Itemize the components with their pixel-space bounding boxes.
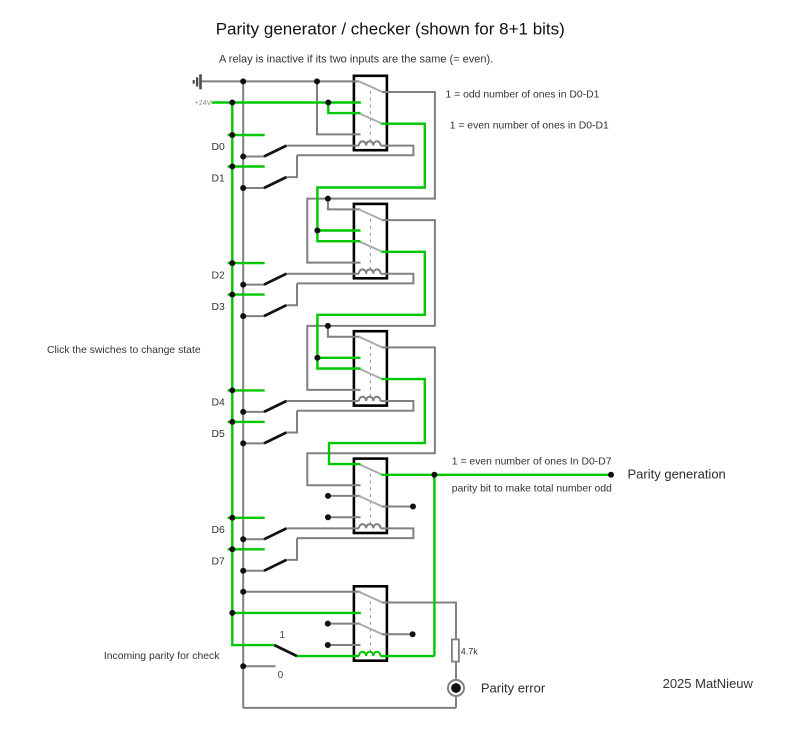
coil K2 (359, 269, 381, 273)
node K3 odd branch (325, 323, 331, 329)
svg-text:Parity error: Parity error (481, 681, 546, 696)
node K5 contact1-NC row (240, 589, 246, 595)
wire K3 coil return loop (297, 401, 413, 411)
relay K4 box (354, 459, 387, 533)
wire K4 even output down to K5 coil (433, 475, 435, 656)
switch D3 pole stub (243, 315, 264, 317)
relay K1 armature dashed line (369, 91, 371, 146)
relay K4 armature dashed line (369, 474, 371, 529)
node K5 contact2-NO terminal (325, 642, 331, 648)
svg-text:2025 MatNieuw: 2025 MatNieuw (663, 676, 754, 691)
switch D2 +24V throw stub (228, 262, 265, 264)
wire K2 odd output to K3 (307, 220, 435, 390)
node K2 odd branch (325, 196, 331, 202)
switch D0 +24V throw stub (228, 134, 265, 136)
switch D7 +24V throw stub (228, 548, 265, 550)
wire K5 contact1-NC from 0V bus (243, 591, 360, 593)
node D3 +24V stub (229, 292, 235, 298)
wire resistor to lamp (455, 662, 457, 680)
switch D6 arm (264, 528, 286, 539)
node D0 +24V stub (229, 132, 235, 138)
node D6 pole (240, 536, 246, 542)
node D7 pole (240, 568, 246, 574)
wire branch to K2 contact1-NC (328, 199, 361, 210)
svg-text:Click the swiches to change st: Click the swiches to change state (47, 345, 201, 356)
relay K3 armature dashed line (369, 346, 371, 401)
node K4 contact2-NC terminal (325, 493, 331, 499)
+24V supply rail wire (212, 101, 361, 103)
svg-text:1: 1 (280, 630, 286, 641)
K1 contact1 movable arm (359, 81, 383, 92)
node parity-0 stub (240, 663, 246, 669)
node D2 pole (240, 282, 246, 288)
wire parity switch output to K5 coil (297, 655, 359, 657)
wire D5 output riser to K3 coil return (286, 411, 297, 433)
node +24V/green-bus junction (229, 100, 235, 106)
K4 contact2 movable arm (359, 496, 383, 507)
K2 contact1 movable arm (359, 209, 383, 220)
svg-text:parity bit to make total numbe: parity bit to make total number odd (452, 484, 612, 495)
wire branch to K2 contact1-NO (317, 229, 360, 231)
svg-text:D1: D1 (212, 174, 226, 185)
node D7 +24V stub (229, 546, 235, 552)
node +24V/K1-c2 feed junction (325, 100, 331, 106)
wire branch to K3 contact1-NC (328, 326, 361, 337)
relay K5 armature dashed line (369, 602, 371, 657)
switch D4 arm (264, 401, 286, 412)
svg-text:D4: D4 (212, 398, 226, 409)
node ground/K1-NC feed junction (314, 78, 320, 84)
wire K5 contact2 output (382, 633, 413, 635)
wire K5 coil to K4 even output (381, 655, 435, 657)
K2 contact2 movable arm (359, 241, 383, 252)
node K4 contact2-NO terminal (325, 514, 331, 520)
wire K1 contact2-NC feed from ground rail (317, 81, 361, 134)
switch D7 arm (264, 560, 286, 571)
resistor R1 4.7k (452, 639, 459, 661)
gray 0V bus vertical wire (242, 81, 244, 708)
svg-text:D0: D0 (212, 142, 226, 153)
wire D2 output to K2 coil (286, 273, 359, 275)
node parity bit terminal (410, 504, 416, 510)
switch D6 +24V throw stub (228, 517, 265, 519)
switch D2 pole stub (243, 284, 264, 286)
node D2 +24V stub (229, 260, 235, 266)
coil K5 (energized side wiring) (359, 652, 381, 656)
svg-text:D3: D3 (212, 302, 226, 313)
svg-text:0: 0 (278, 670, 284, 681)
svg-text:D5: D5 (212, 429, 226, 440)
node K5 contact1-NO row (229, 610, 235, 616)
wire K4 coil return loop (297, 528, 413, 538)
switch D2 arm (264, 274, 286, 285)
node D5 +24V stub (229, 419, 235, 425)
wire K5 contact1-NO feed from +24V (232, 612, 360, 614)
svg-text:D6: D6 (212, 525, 226, 536)
wire K3 even output to K4 contact1-NC (329, 379, 425, 464)
switch D6 pole stub (243, 538, 264, 540)
switch D1 pole stub (243, 187, 264, 189)
svg-text:Incoming parity for check: Incoming parity for check (104, 651, 220, 662)
node ground/0V-bus junction (240, 78, 246, 84)
switch incoming-parity arm (set to 1) (274, 645, 297, 656)
K3 contact2 movable arm (359, 369, 383, 380)
node D1 +24V stub (229, 164, 235, 170)
wire K3 odd output to K4 contact1-NO (307, 347, 435, 485)
switch D5 +24V throw stub (228, 421, 265, 423)
coil K4 (359, 524, 381, 528)
relay K2 box (354, 204, 387, 278)
wire K1 odd output to K2 (307, 92, 435, 263)
svg-text:D2: D2 (212, 270, 226, 281)
node parity generation junction (431, 472, 437, 478)
svg-text:+24V: +24V (195, 100, 212, 107)
wire D0 output to K1 coil (286, 145, 359, 147)
node D0 pole (240, 154, 246, 160)
switch D4 +24V throw stub (228, 389, 265, 391)
svg-text:Parity generation: Parity generation (628, 467, 726, 482)
wire branch to K3 contact1-NO (317, 357, 360, 359)
switch parity-0 throw stub (243, 665, 275, 667)
relay K2 armature dashed line (369, 219, 371, 274)
K5 contact1 movable arm (359, 592, 383, 603)
node D4 pole (240, 409, 246, 415)
node D5 pole (240, 440, 246, 446)
wire lamp to bottom return (455, 696, 457, 708)
node D4 +24V stub (229, 387, 235, 393)
coil K3 (359, 397, 381, 401)
svg-text:4.7k: 4.7k (461, 647, 479, 657)
svg-text:Parity generator / checker (sh: Parity generator / checker (shown for 8+… (216, 20, 565, 39)
node D3 pole (240, 313, 246, 319)
switch D5 pole stub (243, 442, 264, 444)
node K3 even branch (314, 355, 320, 361)
lamp Parity error indicator (448, 680, 464, 696)
switch D1 +24V throw stub (228, 165, 265, 167)
switch D1 arm (264, 177, 286, 188)
relay K5 box (354, 586, 387, 660)
switch D5 arm (264, 433, 286, 444)
node K2 even branch (314, 228, 320, 234)
wire K2 coil return loop (297, 274, 413, 284)
K1 contact2 movable arm (359, 113, 383, 124)
wire K4 even output (parity generation) (382, 474, 612, 476)
svg-text:A relay is inactive if its two: A relay is inactive if its two inputs ar… (219, 54, 493, 66)
coil K1 (359, 141, 381, 145)
wire D3 output riser to K2 coil return (286, 283, 297, 305)
switch D7 pole stub (243, 570, 264, 572)
svg-text:1 = even number of ones In D0-: 1 = even number of ones In D0-D7 (452, 457, 612, 468)
node K5 contact2-NC terminal (325, 621, 331, 627)
wire D4 output to K3 coil (286, 400, 359, 402)
node K4 contact2-NC open terminal (328, 495, 361, 497)
wire K1 coil return loop (297, 146, 413, 156)
ground symbol (194, 74, 201, 89)
wire D6 output to K4 coil (286, 527, 359, 529)
switch D3 arm (264, 305, 286, 316)
switch D0 pole stub (243, 156, 264, 158)
green +24V bus vertical and parity-1 throw (232, 103, 274, 646)
node K5 contact2-NC open terminal (328, 623, 361, 625)
wire K2 even output to K3 (317, 252, 424, 369)
wire K5 contact1 output to resistor (382, 603, 457, 640)
relay K3 box (354, 331, 387, 405)
svg-text:D7: D7 (212, 557, 226, 568)
node K5 contact2 output terminal (410, 631, 416, 637)
svg-text:1 = odd number of ones in D0-D: 1 = odd number of ones in D0-D1 (446, 89, 600, 100)
node K4 contact2-NO open terminal (328, 516, 361, 518)
switch D3 +24V throw stub (228, 293, 265, 295)
node K5 contact2-NO open terminal (328, 644, 361, 646)
svg-text:1 = even number of ones in D0-: 1 = even number of ones in D0-D1 (450, 120, 609, 131)
switch D4 pole stub (243, 411, 264, 413)
wire D1 output riser to K1 coil return (286, 155, 297, 177)
wire D7 output riser to K4 coil return (286, 538, 297, 560)
wire K1 contact2-NC feed from +24V (328, 103, 360, 114)
wire K1 even output to K2 (317, 124, 424, 242)
K3 contact1 movable arm (359, 337, 383, 348)
K5 contact2 movable arm (359, 624, 383, 635)
node parity generation terminal (608, 472, 614, 478)
K4 contact1 movable arm (359, 464, 383, 475)
bottom return wire (243, 707, 456, 709)
ground bus wire (top rail) (201, 80, 359, 82)
node D1 pole (240, 185, 246, 191)
node D6 +24V stub (229, 515, 235, 521)
switch D0 arm (264, 146, 286, 157)
wire K4 contact2 output (parity bit) (382, 506, 414, 508)
relay K1 box (354, 76, 387, 150)
